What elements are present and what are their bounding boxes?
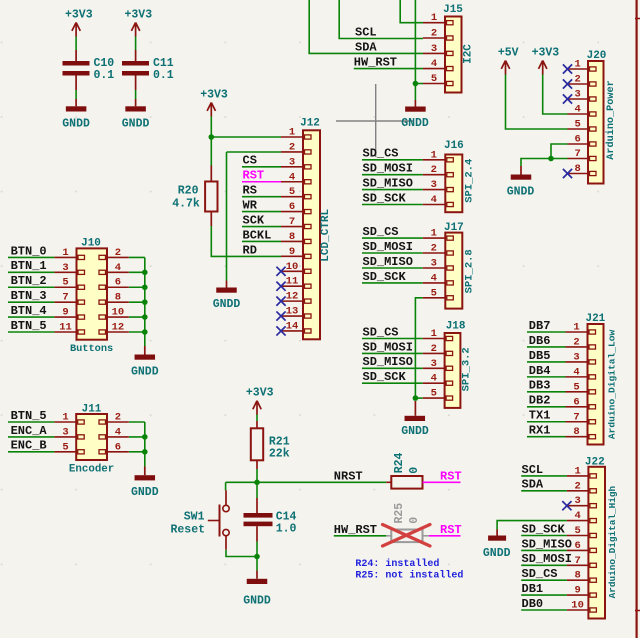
- wire: [414, 84, 416, 101]
- svg-text:5: 5: [431, 73, 437, 85]
- svg-text:WR: WR: [243, 199, 258, 213]
- svg-text:3: 3: [62, 426, 68, 438]
- wire label: [521, 535, 567, 537]
- svg-text:SPI_2.4: SPI_2.4: [464, 159, 476, 203]
- wire: [256, 482, 258, 498]
- svg-text:R25: R25: [393, 503, 406, 524]
- label SCK: [243, 213, 265, 227]
- connector J12: [281, 118, 332, 340]
- resistor R20: [172, 166, 217, 227]
- ground GNDD (C11): [122, 99, 150, 131]
- svg-text:R24: installed: R24: installed: [355, 558, 439, 570]
- svg-text:+3V3: +3V3: [65, 8, 93, 21]
- label DB1: [522, 582, 544, 596]
- label RST (R25): [440, 523, 462, 537]
- svg-text:GNDD: GNDD: [401, 117, 429, 130]
- svg-text:SD_MOSI: SD_MOSI: [522, 552, 572, 566]
- cursor crosshair: [336, 84, 414, 157]
- svg-text:Encoder: Encoder: [69, 464, 114, 476]
- junction: [142, 299, 148, 305]
- power +3V3 (C10): [65, 8, 93, 36]
- ground GNDD (C10): [62, 99, 90, 131]
- svg-text:SD_MOSI: SD_MOSI: [363, 162, 413, 176]
- wire J15 pin5 bus: [414, 0, 416, 84]
- ground GNDD (J18): [401, 401, 429, 438]
- svg-text:GNDD: GNDD: [507, 186, 535, 199]
- wire: [225, 482, 227, 490]
- svg-text:SCL: SCL: [355, 26, 377, 40]
- junction: [142, 329, 148, 335]
- svg-text:SD_SCK: SD_SCK: [522, 522, 566, 536]
- svg-text:J18: J18: [446, 321, 466, 333]
- svg-text:6: 6: [573, 396, 579, 408]
- svg-text:2: 2: [574, 480, 580, 492]
- wire HW_RST to J15.4: [354, 68, 423, 70]
- svg-text:SD_SCK: SD_SCK: [363, 370, 407, 384]
- wire: [226, 152, 228, 281]
- label BTN_3: [11, 289, 47, 303]
- wire J15 pin5: [415, 83, 423, 85]
- wire: [226, 550, 257, 557]
- wire label: [362, 338, 423, 340]
- label CS: [243, 154, 257, 168]
- wire +5V to J20.5: [506, 75, 568, 130]
- svg-text:10: 10: [571, 600, 584, 612]
- wire label: [362, 267, 423, 269]
- svg-text:2: 2: [289, 141, 295, 153]
- svg-text:R24: R24: [393, 452, 406, 473]
- wire RST highlighted: [242, 181, 303, 183]
- wire label: [527, 361, 566, 363]
- wire label: [527, 436, 566, 438]
- svg-text:12: 12: [286, 291, 299, 303]
- label SD_CS: [522, 567, 558, 581]
- svg-text:J15: J15: [443, 4, 463, 16]
- svg-text:2: 2: [431, 343, 437, 355]
- svg-text:1: 1: [431, 228, 437, 240]
- label SCL: [522, 463, 544, 477]
- wire label: [527, 406, 566, 408]
- wire label: [527, 376, 566, 378]
- label TX1: [529, 409, 551, 423]
- svg-text:8: 8: [289, 231, 295, 243]
- note R24 installed: [355, 558, 439, 570]
- wire label: [8, 316, 54, 318]
- wire to gnd bus: [129, 436, 145, 438]
- svg-text:GNDD: GNDD: [62, 118, 90, 131]
- svg-text:GNDD: GNDD: [243, 594, 271, 607]
- label BCKL: [243, 228, 272, 242]
- label SD_SCK: [522, 522, 566, 536]
- svg-text:2: 2: [573, 336, 579, 348]
- label SD_CS: [363, 147, 399, 161]
- wire label: [8, 451, 54, 453]
- svg-text:+3V3: +3V3: [200, 88, 228, 101]
- wire label: [521, 490, 567, 492]
- wire to gnd bus: [129, 331, 145, 333]
- svg-text:7: 7: [574, 555, 580, 567]
- power +3V3 (C11): [124, 8, 152, 36]
- svg-text:SW1: SW1: [184, 511, 205, 524]
- svg-text:10: 10: [286, 261, 299, 273]
- no-connect X: [563, 79, 572, 88]
- ground GNDD (J12): [213, 281, 241, 312]
- svg-text:DB4: DB4: [529, 364, 551, 378]
- svg-text:RST: RST: [243, 169, 265, 183]
- no-connect X: [562, 501, 571, 510]
- label SDA: [522, 478, 544, 492]
- wire SDA from top: [309, 0, 423, 53]
- junction: [209, 134, 215, 140]
- svg-text:1: 1: [574, 465, 580, 477]
- svg-text:SCL: SCL: [522, 463, 544, 477]
- svg-text:DB1: DB1: [522, 582, 544, 596]
- svg-text:1: 1: [289, 127, 295, 139]
- wire to J12 pin1: [211, 136, 281, 138]
- no-connect X: [276, 311, 285, 320]
- svg-text:3: 3: [431, 43, 437, 55]
- label RS: [243, 184, 257, 198]
- svg-text:6: 6: [289, 201, 295, 213]
- label SD_CS: [363, 325, 399, 339]
- resistor R21: [251, 421, 290, 469]
- wire label: [521, 579, 567, 581]
- svg-text:1: 1: [62, 412, 68, 424]
- svg-text:BTN_5: BTN_5: [11, 409, 47, 423]
- label BTN_1: [11, 259, 47, 273]
- ground GNDD (J20): [507, 166, 535, 199]
- wire to gnd bus: [129, 271, 145, 273]
- svg-text:SDA: SDA: [522, 478, 544, 492]
- svg-text:ENC_B: ENC_B: [11, 439, 47, 453]
- svg-text:SD_MISO: SD_MISO: [522, 537, 572, 551]
- power +3V3 (J12): [200, 88, 228, 116]
- capacitor C14: [244, 498, 297, 542]
- label DB0: [522, 597, 544, 611]
- svg-text:CS: CS: [243, 154, 257, 168]
- note R25 not installed: [355, 569, 463, 581]
- svg-text:+3V3: +3V3: [124, 8, 152, 21]
- svg-text:SD_SCK: SD_SCK: [363, 270, 407, 284]
- junction: [142, 270, 148, 276]
- svg-text:9: 9: [62, 307, 68, 319]
- label SD_MOSI: [363, 240, 413, 254]
- label DB3: [529, 379, 551, 393]
- wire label: [521, 549, 567, 551]
- svg-text:DB3: DB3: [529, 379, 551, 393]
- wire label: [8, 256, 54, 258]
- svg-text:3: 3: [431, 258, 437, 270]
- wire J20.7 to GNDD: [521, 159, 568, 167]
- svg-text:J10: J10: [81, 238, 101, 250]
- svg-text:BTN_2: BTN_2: [11, 274, 47, 288]
- wire label: [242, 226, 281, 228]
- wire label: [527, 346, 566, 348]
- svg-text:2: 2: [115, 247, 121, 259]
- wire label: [521, 475, 567, 477]
- svg-text:3: 3: [573, 351, 579, 363]
- connector J21: [566, 313, 618, 445]
- power +3V3 (J20): [532, 46, 560, 74]
- connector J10: [54, 238, 128, 356]
- svg-text:DB7: DB7: [529, 319, 551, 333]
- no-connect X: [276, 267, 285, 276]
- label SD_CS: [363, 225, 399, 239]
- junction: [413, 81, 419, 87]
- svg-text:4: 4: [431, 272, 437, 284]
- no-connect X: [563, 64, 572, 73]
- svg-text:3: 3: [62, 262, 68, 274]
- wire to gnd bus: [129, 421, 145, 423]
- switch SW1: [170, 490, 229, 549]
- wire label: [362, 189, 423, 191]
- label SD_MISO: [363, 255, 413, 269]
- wire label: [527, 421, 566, 423]
- label BTN_0: [11, 244, 47, 258]
- wire to gnd bus: [129, 301, 145, 303]
- svg-text:5: 5: [431, 388, 437, 400]
- svg-text:0: 0: [408, 467, 421, 474]
- svg-text:SCK: SCK: [243, 213, 265, 227]
- wire label: [362, 252, 423, 254]
- wire label: [521, 564, 567, 566]
- ground GNDD (C14): [243, 571, 271, 608]
- svg-text:0.1: 0.1: [153, 69, 174, 82]
- no-connect X: [276, 326, 285, 335]
- svg-text:1.0: 1.0: [276, 523, 297, 536]
- label RX1: [529, 424, 551, 438]
- svg-text:22k: 22k: [269, 448, 290, 461]
- svg-text:3: 3: [575, 89, 581, 101]
- svg-text:12: 12: [112, 322, 125, 334]
- power +3V3 (R21): [246, 387, 274, 415]
- no-connect X: [276, 297, 285, 306]
- label HW_RST (R25): [334, 523, 377, 537]
- svg-text:4: 4: [574, 510, 580, 522]
- svg-text:HW_RST: HW_RST: [354, 56, 397, 70]
- svg-text:1: 1: [62, 247, 68, 259]
- junction: [142, 284, 148, 290]
- svg-text:SPI_3.2: SPI_3.2: [461, 347, 473, 391]
- wire label: [362, 382, 423, 384]
- svg-text:RS: RS: [243, 184, 257, 198]
- svg-text:BTN_1: BTN_1: [11, 259, 47, 273]
- svg-text:DB2: DB2: [529, 394, 551, 408]
- capacitor C11: [122, 50, 174, 90]
- svg-text:SDA: SDA: [355, 41, 377, 55]
- svg-text:Arduino_Power: Arduino_Power: [605, 80, 617, 159]
- wire J20.6: [551, 144, 568, 159]
- svg-text:SD_MISO: SD_MISO: [363, 177, 413, 191]
- svg-text:RX1: RX1: [529, 424, 551, 438]
- wire label: [242, 211, 281, 213]
- wire to gnd bus: [129, 256, 145, 258]
- wire: [256, 557, 258, 571]
- svg-text:SD_MISO: SD_MISO: [363, 355, 413, 369]
- sheet border: [635, 0, 640, 638]
- svg-text:4: 4: [431, 194, 437, 206]
- svg-text:ENC_A: ENC_A: [11, 424, 48, 438]
- junction: [142, 434, 148, 440]
- svg-text:J16: J16: [444, 140, 464, 152]
- no-connect X: [563, 169, 572, 178]
- svg-text:R25: not installed: R25: not installed: [355, 569, 463, 581]
- svg-text:7: 7: [573, 411, 579, 423]
- svg-text:6: 6: [115, 277, 121, 289]
- wire NRST rail: [226, 481, 387, 483]
- wire label: [362, 367, 423, 369]
- wire label: [242, 166, 281, 168]
- no-connect X: [563, 94, 572, 103]
- svg-text:1: 1: [431, 149, 437, 161]
- wire HW_RST: [334, 535, 387, 537]
- ground GNDD (J22): [483, 530, 511, 561]
- wire label: [8, 271, 54, 273]
- wire label: [521, 594, 567, 596]
- svg-text:8: 8: [115, 292, 121, 304]
- label RST: [243, 169, 265, 183]
- connector J11: [54, 404, 128, 476]
- no-connect X: [276, 282, 285, 291]
- svg-text:TX1: TX1: [529, 409, 551, 423]
- label ENC_B: [11, 439, 47, 453]
- label WR: [243, 199, 258, 213]
- svg-text:1: 1: [431, 12, 437, 24]
- svg-text:6: 6: [574, 540, 580, 552]
- label BTN_5: [11, 409, 47, 423]
- wire J22.4 to GNDD: [497, 521, 567, 530]
- ground GNDD (J15): [401, 100, 429, 130]
- label DB5: [529, 349, 551, 363]
- svg-text:GNDD: GNDD: [131, 486, 159, 499]
- svg-text:10: 10: [112, 307, 125, 319]
- svg-text:4: 4: [115, 262, 121, 274]
- wire gnd bus: [144, 257, 146, 346]
- wire label: [8, 301, 54, 303]
- svg-text:1: 1: [431, 328, 437, 340]
- wire +3V3 to J20.4: [543, 75, 568, 115]
- svg-text:0.1: 0.1: [94, 69, 115, 82]
- label SD_MISO: [363, 355, 413, 369]
- svg-text:+5V: +5V: [498, 46, 519, 59]
- svg-text:2: 2: [431, 164, 437, 176]
- svg-text:Buttons: Buttons: [70, 343, 113, 355]
- wire SCL from top: [339, 0, 423, 39]
- label SCL: [355, 26, 377, 40]
- svg-text:NRST: NRST: [334, 469, 363, 483]
- svg-text:3: 3: [574, 495, 580, 507]
- label DB7: [529, 319, 551, 333]
- junction: [413, 395, 419, 401]
- svg-text:7: 7: [575, 148, 581, 160]
- svg-text:4.7k: 4.7k: [172, 198, 200, 211]
- svg-text:4: 4: [431, 58, 437, 70]
- junction: [254, 554, 260, 560]
- svg-text:5: 5: [574, 525, 580, 537]
- svg-text:J21: J21: [585, 313, 605, 325]
- svg-text:DB5: DB5: [529, 349, 551, 363]
- ground GNDD (J11): [131, 467, 159, 500]
- svg-text:Arduino_Digital_Low: Arduino_Digital_Low: [607, 329, 618, 439]
- svg-text:J17: J17: [444, 222, 464, 234]
- wire label: [362, 174, 423, 176]
- junction: [548, 156, 554, 162]
- svg-text:I2C: I2C: [462, 44, 474, 64]
- junction: [254, 480, 260, 486]
- label DB4: [529, 364, 551, 378]
- svg-text:1: 1: [573, 322, 579, 334]
- svg-text:13: 13: [286, 306, 299, 318]
- svg-text:HW_RST: HW_RST: [334, 523, 377, 537]
- wire label: [242, 196, 281, 198]
- ground GNDD (J10): [131, 346, 159, 379]
- svg-text:2: 2: [575, 74, 581, 86]
- svg-text:J22: J22: [585, 457, 605, 469]
- svg-text:8: 8: [573, 426, 579, 438]
- connector J17: [423, 222, 476, 308]
- svg-text:DB6: DB6: [529, 334, 551, 348]
- label DB2: [529, 394, 551, 408]
- svg-text:J11: J11: [82, 404, 102, 416]
- svg-text:GNDD: GNDD: [213, 298, 241, 311]
- svg-text:4: 4: [431, 373, 437, 385]
- label NRST: [334, 469, 363, 483]
- connector J15: [423, 4, 474, 93]
- label SD_SCK: [363, 191, 407, 205]
- svg-text:7: 7: [62, 292, 68, 304]
- svg-text:SD_MOSI: SD_MOSI: [363, 240, 413, 254]
- wire: [256, 542, 258, 557]
- label BTN_2: [11, 274, 47, 288]
- svg-text:J12: J12: [300, 118, 320, 130]
- svg-text:7: 7: [289, 216, 295, 228]
- svg-text:RST: RST: [440, 523, 462, 537]
- wire label: [362, 282, 423, 284]
- svg-text:BTN_5: BTN_5: [11, 319, 47, 333]
- power +5V: [498, 46, 519, 74]
- svg-text:4: 4: [289, 171, 295, 183]
- wire: [75, 37, 77, 51]
- connector J18: [423, 321, 473, 408]
- wire: [135, 90, 137, 99]
- svg-text:3: 3: [431, 179, 437, 191]
- svg-text:2: 2: [431, 243, 437, 255]
- svg-text:11: 11: [286, 276, 299, 288]
- svg-text:BTN_4: BTN_4: [11, 304, 47, 318]
- wire label: [527, 391, 566, 393]
- svg-text:5: 5: [575, 119, 581, 131]
- svg-text:SD_CS: SD_CS: [363, 147, 399, 161]
- wire label: [8, 421, 54, 423]
- wire label: [362, 159, 423, 161]
- svg-text:SPI_2.8: SPI_2.8: [464, 249, 476, 293]
- svg-text:SD_CS: SD_CS: [363, 225, 399, 239]
- wire label: [362, 204, 423, 206]
- svg-text:3: 3: [289, 156, 295, 168]
- svg-text:+3V3: +3V3: [246, 387, 274, 400]
- label BTN_5: [11, 319, 47, 333]
- wire label: [242, 240, 281, 242]
- wire to gnd bus: [129, 316, 145, 318]
- svg-text:R20: R20: [178, 185, 199, 198]
- svg-text:DB0: DB0: [522, 597, 544, 611]
- svg-text:GNDD: GNDD: [131, 366, 159, 379]
- svg-text:4: 4: [573, 366, 579, 378]
- svg-text:3: 3: [431, 358, 437, 370]
- wire R20 to RD: [211, 226, 281, 256]
- wire J17.5 to J18.5: [415, 298, 422, 398]
- wire to gnd bus: [129, 286, 145, 288]
